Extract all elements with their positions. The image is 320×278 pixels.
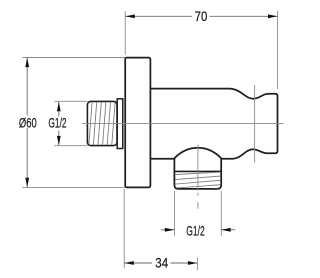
dim G1/2 left: arrow line bbox=[58, 102, 60, 117]
dim 34: dimension line bbox=[124, 262, 152, 264]
body arm and shower-holder outline bbox=[150, 89, 277, 189]
inlet thread hatching bbox=[84, 101, 120, 146]
dim G1/2 bottom: left arrow bbox=[165, 228, 174, 232]
dim O60: extension line bottom bbox=[22, 186, 125, 188]
svg-text:G1/2: G1/2 bbox=[186, 224, 205, 239]
dim 70: extension line right bbox=[277, 11, 279, 89]
svg-text:G1/2: G1/2 bbox=[48, 115, 66, 130]
dim 34: right arrow bbox=[188, 261, 197, 265]
outlet thread top line bbox=[174, 170, 221, 172]
dim G1/2 bottom: right arrow bbox=[221, 228, 230, 232]
dim G1/2 left: extension line bottom bbox=[54, 145, 87, 147]
dim O60: dimension line bbox=[26, 58, 28, 116]
dim 34: left arrow bbox=[124, 261, 133, 265]
dim G1/2 bottom: left stub bbox=[161, 229, 174, 231]
dim G1/2 bottom: right stub bbox=[221, 229, 235, 231]
collar between inlet thread and flange bbox=[117, 99, 123, 149]
dim O60: extension line top bbox=[22, 57, 125, 59]
dim G1/2 bottom: extension line left bbox=[174, 191, 176, 236]
holder cap edge line bbox=[254, 85, 256, 163]
dim 34: extension line right bbox=[196, 258, 198, 271]
dim 70: right arrow bbox=[268, 14, 277, 18]
dim 70: extension line left bbox=[124, 11, 126, 55]
dim O60: bottom arrow bbox=[25, 178, 29, 187]
dim 70: dimension line bbox=[125, 15, 192, 17]
dim O60: top arrow bbox=[25, 58, 29, 67]
dim G1/2 left: up arrow bbox=[57, 102, 61, 111]
svg-text:Ø60: Ø60 bbox=[19, 115, 37, 130]
dim G1/2 left: down arrow bbox=[57, 136, 61, 145]
svg-text:70: 70 bbox=[195, 9, 208, 24]
dim G1/2 bottom: extension line right bbox=[220, 191, 222, 236]
dim 70: left arrow bbox=[125, 14, 134, 18]
dim 34: extension line left bbox=[123, 189, 125, 268]
outlet vertical centerline bbox=[197, 145, 199, 191]
svg-text:34: 34 bbox=[155, 255, 168, 270]
inlet thread block G1/2 bbox=[87, 101, 117, 145]
outlet dome bbox=[174, 148, 221, 159]
wall flange (side view) bbox=[125, 58, 150, 188]
dim G1/2 left: extension line top bbox=[54, 100, 87, 102]
outlet thread hatching bbox=[174, 172, 222, 191]
horizontal centerline bbox=[82, 123, 284, 125]
